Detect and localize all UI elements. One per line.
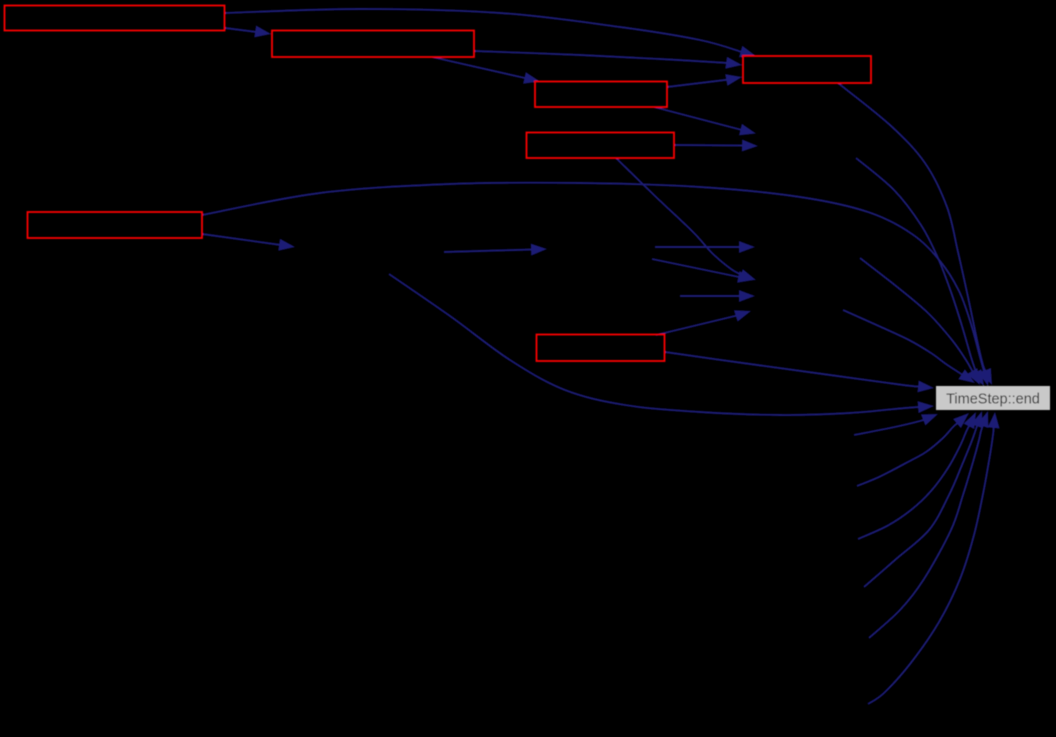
edge b3->n1 [654, 107, 756, 135]
node TimeStep::end [936, 386, 1050, 410]
edge n3->n5 [652, 259, 754, 283]
node box6 [28, 212, 203, 238]
edge b1->b5 [225, 9, 756, 57]
edge b2->b3 [432, 57, 540, 84]
edge b7->n5c [656, 310, 751, 335]
edge n4->end [860, 258, 980, 385]
node box1 [5, 6, 225, 31]
edge b5->end [838, 83, 992, 385]
edge n2->n3 [444, 244, 547, 256]
edge b4->n1 [674, 140, 758, 152]
node box2 [272, 31, 474, 58]
edge n6->n5b [680, 290, 755, 302]
edge b7->end [665, 352, 934, 392]
edge n5->end [843, 310, 975, 383]
edge b4->n5 [616, 158, 756, 280]
edge n3->n4 [655, 241, 755, 253]
edge b2->b5 [474, 51, 742, 69]
edge i3->end [858, 412, 976, 539]
edge i4->end [864, 411, 983, 587]
edge b6->end [202, 183, 990, 386]
edge n1->end [856, 158, 984, 386]
edge b3->b5 [667, 74, 742, 87]
edge i2->end [857, 413, 969, 486]
edge i6->end [868, 412, 1000, 704]
edge b6->n2 [202, 234, 295, 251]
node box5 [743, 56, 871, 83]
edge n2->end [389, 274, 934, 415]
edge b1->b2 [225, 26, 271, 38]
edge i1->end [854, 414, 938, 435]
node box7 [537, 335, 665, 362]
edge i5->end [869, 411, 988, 638]
node box3 [535, 82, 667, 108]
node box4 [527, 133, 675, 159]
svg-text:TimeStep::end: TimeStep::end [946, 392, 1040, 408]
